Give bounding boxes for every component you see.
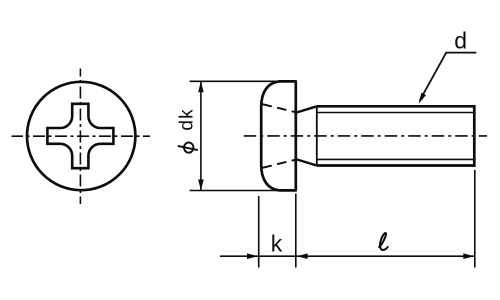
svg-text:d: d (454, 28, 467, 54)
svg-text:k: k (271, 231, 283, 257)
svg-text:dk: dk (176, 108, 197, 130)
